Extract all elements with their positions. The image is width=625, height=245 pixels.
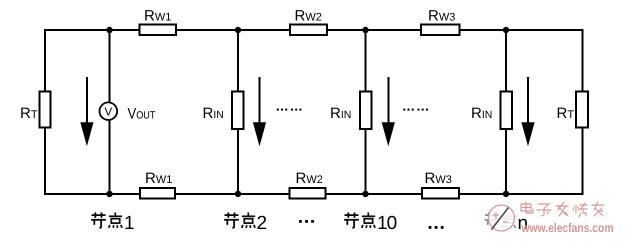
svg-text:VOUT: VOUT [128,105,157,122]
resistor RW1 top [140,7,177,35]
wire branch node 1 [109,30,111,194]
svg-text:10: 10 [377,213,397,234]
svg-text:RIN: RIN [471,105,492,122]
svg-text:RW1: RW1 [145,170,172,187]
resistor RT right [557,92,589,128]
watermark logo circle [489,205,515,231]
wire top rail [45,29,583,31]
resistor RIN node 10 [330,92,372,130]
svg-text:RIN: RIN [330,105,351,122]
svg-text:V: V [105,106,113,118]
svg-text:RT: RT [20,105,38,122]
junction dot node1 top [106,27,112,33]
svg-text:RIN: RIN [203,105,224,122]
resistor RIN node 2 [203,92,244,130]
resistor RW2 bottom [290,170,326,199]
node label 节点n [485,212,528,234]
wire branch node 10 [365,30,367,194]
current arrow branch 3 [382,77,395,146]
node label 节点10 [344,212,396,233]
junction dot node10 top [362,27,368,33]
current arrow branch 4 [521,77,534,146]
node label 节点2 [224,212,267,233]
resistor RW3 top [421,7,460,35]
ellipsis dots mid upper-left [277,109,302,111]
watermark text 电子发烧友 [521,202,604,217]
resistor RW1 bottom [140,170,175,199]
resistor RW3 bottom [422,170,459,199]
junction dot node-n bottom [503,191,509,197]
node label 节点1 [91,212,134,233]
svg-text:2: 2 [257,213,268,234]
wire right vertical branch [582,29,584,195]
svg-text:RW1: RW1 [144,7,171,24]
junction dot node10 bottom [362,191,368,197]
voltage source V with VOUT label [100,102,157,122]
svg-text:1: 1 [124,213,135,234]
junction dot node-n top [503,27,509,33]
resistor RIN node n [471,92,512,130]
wire branch node n [505,30,507,194]
svg-text:RW2: RW2 [295,7,322,24]
resistor RT left [20,92,51,128]
ellipsis between node2 and node10 [299,220,314,223]
wire bottom rail [45,193,583,195]
junction dot node2 top [235,27,241,33]
wire left vertical branch [44,29,46,195]
svg-text:RT: RT [557,105,575,122]
ellipsis dots mid upper-right [403,109,428,111]
junction dot node1 bottom [106,191,112,197]
wire branch node 2 [237,30,239,194]
svg-text:RW2: RW2 [296,170,323,187]
junction dot node2 bottom [235,191,241,197]
current arrow branch 2 [253,77,266,146]
current arrow branch 1 [80,77,93,146]
svg-text:www.elecfans.com: www.elecfans.com [521,221,614,235]
svg-text:RW3: RW3 [425,170,452,187]
resistor RW2 top [290,7,327,35]
ellipsis between node10 and node n [429,226,444,229]
svg-text:RW3: RW3 [428,7,455,24]
